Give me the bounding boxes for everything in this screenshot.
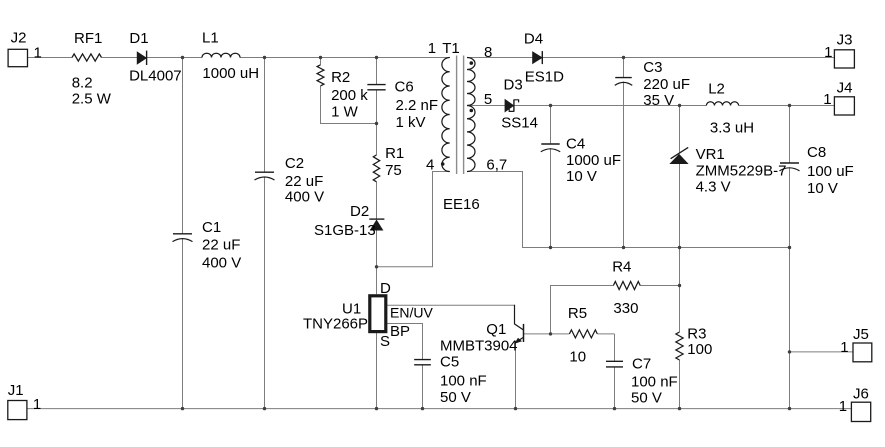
svg-text:C1: C1 <box>202 219 221 236</box>
svg-text:100 nF: 100 nF <box>631 374 678 391</box>
svg-text:L2: L2 <box>708 81 725 98</box>
svg-text:D4: D4 <box>524 30 543 47</box>
svg-text:C5: C5 <box>440 354 459 371</box>
svg-text:1: 1 <box>428 40 436 57</box>
svg-text:75: 75 <box>385 162 402 179</box>
svg-text:35 V: 35 V <box>643 92 674 109</box>
svg-text:TNY266P: TNY266P <box>303 316 368 333</box>
svg-text:220 uF: 220 uF <box>643 76 690 93</box>
svg-text:ES1D: ES1D <box>525 69 564 86</box>
svg-text:50 V: 50 V <box>440 389 471 406</box>
svg-text:100 uF: 100 uF <box>807 163 854 180</box>
svg-text:R2: R2 <box>331 69 350 86</box>
svg-text:J6: J6 <box>853 386 869 403</box>
svg-text:1 kV: 1 kV <box>396 114 426 131</box>
svg-text:ZMM5229B-7: ZMM5229B-7 <box>696 163 787 180</box>
svg-text:400 V: 400 V <box>285 189 324 206</box>
svg-text:2.5 W: 2.5 W <box>72 91 112 108</box>
svg-text:3.3 uH: 3.3 uH <box>710 120 754 137</box>
svg-text:J3: J3 <box>837 31 853 48</box>
svg-text:4.3 V: 4.3 V <box>696 179 731 196</box>
svg-text:J1: J1 <box>8 382 24 399</box>
svg-text:J4: J4 <box>837 80 853 97</box>
svg-text:Q1: Q1 <box>486 321 506 338</box>
svg-text:50 V: 50 V <box>631 390 662 407</box>
svg-text:D3: D3 <box>504 76 523 93</box>
svg-text:EE16: EE16 <box>443 196 480 213</box>
svg-text:6,7: 6,7 <box>486 157 507 174</box>
svg-text:10 V: 10 V <box>807 180 838 197</box>
svg-text:J5: J5 <box>853 326 869 343</box>
svg-text:D2: D2 <box>350 203 369 220</box>
svg-text:C8: C8 <box>807 144 826 161</box>
svg-text:S: S <box>380 333 390 350</box>
svg-text:T1: T1 <box>442 40 460 57</box>
svg-text:8: 8 <box>484 44 492 61</box>
svg-text:VR1: VR1 <box>696 146 725 163</box>
svg-text:8.2: 8.2 <box>72 74 93 91</box>
svg-text:1 W: 1 W <box>331 104 359 121</box>
svg-text:10: 10 <box>569 349 586 366</box>
svg-text:EN/UV: EN/UV <box>390 305 433 321</box>
svg-text:1: 1 <box>34 44 42 61</box>
svg-text:1: 1 <box>839 398 847 415</box>
svg-text:D1: D1 <box>129 30 148 47</box>
svg-text:C7: C7 <box>632 356 651 373</box>
svg-text:SS14: SS14 <box>501 114 538 131</box>
svg-text:DL4007: DL4007 <box>129 68 182 85</box>
svg-text:1: 1 <box>824 44 832 61</box>
svg-text:L1: L1 <box>202 30 219 47</box>
svg-text:2.2 nF: 2.2 nF <box>396 97 439 114</box>
svg-text:C6: C6 <box>395 79 414 96</box>
svg-text:1000 uH: 1000 uH <box>202 65 259 82</box>
svg-text:22 uF: 22 uF <box>285 173 323 190</box>
svg-text:22 uF: 22 uF <box>202 237 240 254</box>
svg-text:200 k: 200 k <box>331 87 368 104</box>
svg-text:BP: BP <box>390 323 410 340</box>
svg-text:S1GB-13: S1GB-13 <box>314 222 376 239</box>
svg-text:400 V: 400 V <box>202 254 241 271</box>
svg-text:RF1: RF1 <box>74 30 102 47</box>
svg-text:10 V: 10 V <box>566 168 597 185</box>
svg-text:R1: R1 <box>385 145 404 162</box>
svg-text:C4: C4 <box>566 135 585 152</box>
svg-text:C3: C3 <box>643 59 662 76</box>
svg-text:5: 5 <box>484 91 492 108</box>
svg-text:100: 100 <box>687 341 712 358</box>
svg-text:330: 330 <box>613 300 638 317</box>
svg-text:D: D <box>380 280 391 297</box>
svg-text:100 nF: 100 nF <box>440 373 487 390</box>
svg-text:4: 4 <box>426 157 434 174</box>
svg-text:R5: R5 <box>568 305 587 322</box>
svg-text:1: 1 <box>33 396 41 413</box>
svg-text:MMBT3904: MMBT3904 <box>440 338 518 355</box>
svg-text:C2: C2 <box>285 155 304 172</box>
svg-text:R3: R3 <box>687 326 706 343</box>
svg-text:R4: R4 <box>612 259 631 276</box>
svg-text:1000 uF: 1000 uF <box>566 152 621 169</box>
svg-text:1: 1 <box>823 91 831 108</box>
svg-text:J2: J2 <box>11 29 27 46</box>
svg-text:1: 1 <box>840 339 848 356</box>
